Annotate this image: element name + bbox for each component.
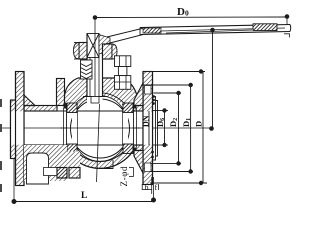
svg-text:Z-φd: Z-φd bbox=[119, 166, 129, 187]
dimension D0 line bbox=[95, 16, 287, 19]
bonnet dome hatched bbox=[65, 78, 88, 105]
right pipe wall bottom hatched band bbox=[126, 145, 143, 151]
left flange raised face bbox=[11, 100, 16, 159]
handle tip bbox=[289, 25, 292, 32]
right flange hub bottom bbox=[134, 151, 143, 174]
handle bar bottom edge bbox=[140, 32, 290, 35]
bottom boss box left bbox=[57, 168, 67, 179]
left flange bore gap bbox=[11, 111, 25, 144]
D0 extension right bbox=[286, 17, 288, 25]
gland top edge bbox=[74, 42, 87, 44]
body cavity top arc bbox=[71, 93, 130, 111]
L dimension line bbox=[14, 201, 154, 203]
body cavity white bbox=[68, 96, 133, 161]
stem inner left bbox=[89, 58, 91, 97]
ball inner arc bottom bbox=[75, 142, 126, 161]
seat ring top left bbox=[67, 103, 77, 113]
H line bbox=[212, 30, 214, 129]
ball inner arc top bbox=[75, 96, 126, 115]
stem outer right bbox=[102, 42, 104, 97]
packing gland right bbox=[103, 44, 113, 59]
right flange face lines bbox=[142, 72, 144, 185]
left pipe wall top hatched band bbox=[24, 106, 57, 112]
bottom left block bbox=[24, 145, 67, 181]
seat edge vertical right bbox=[122, 111, 124, 145]
packing gland left bbox=[79, 43, 87, 60]
D1 dimension line bbox=[190, 85, 192, 172]
svg-text:D0: D0 bbox=[177, 6, 189, 18]
svg-text:f: f bbox=[155, 183, 158, 192]
centerline bbox=[2, 127, 212, 129]
gland bottom edge bbox=[74, 58, 87, 60]
body bottom left fill bbox=[65, 152, 81, 168]
body bottom outer arc bbox=[67, 151, 133, 168]
packing nut wedge bbox=[99, 35, 110, 55]
raised face step 1 bbox=[153, 97, 156, 161]
handle inner line 2 bbox=[166, 30, 252, 33]
body joint line right bbox=[133, 103, 135, 154]
D dimension line bbox=[202, 72, 204, 184]
DN dimension line bbox=[148, 111, 150, 145]
bottom bolt slot white bbox=[44, 168, 58, 176]
handle mid line bbox=[160, 28, 285, 31]
bolt hole bracket bbox=[129, 167, 134, 169]
svg-text:D: D bbox=[194, 121, 204, 127]
svg-text:DN: DN bbox=[142, 115, 151, 127]
right flange plate bbox=[143, 72, 153, 185]
ball bbox=[71, 99, 130, 158]
bore bottom line bbox=[11, 144, 153, 146]
seat ring bottom left bbox=[67, 144, 77, 154]
right flange top bolt hole bbox=[145, 86, 152, 95]
centerline through port bbox=[60, 127, 140, 129]
raised face tick dots bbox=[152, 95, 155, 98]
left flange face lines bbox=[10, 100, 12, 159]
right flange bore gap bbox=[143, 111, 152, 144]
packing lobe right bbox=[112, 44, 117, 59]
left flange hub bottom bbox=[24, 151, 35, 161]
D0 extension left bbox=[94, 18, 96, 97]
spring washer stack left bbox=[81, 60, 93, 79]
gland bolt shank bbox=[118, 67, 127, 76]
svg-text:b: b bbox=[145, 183, 149, 192]
handle boss hatch bbox=[143, 28, 161, 33]
seat ring bottom right bbox=[123, 144, 133, 154]
right flange hub top bbox=[134, 83, 143, 106]
stem outer left bbox=[86, 34, 88, 97]
bottom boss box right bbox=[69, 168, 80, 179]
bottom center stud line bbox=[97, 104, 100, 182]
seat ring top right bbox=[123, 103, 133, 113]
handle grip hatch bbox=[253, 24, 277, 31]
right flange bottom bolt hole bbox=[145, 163, 152, 172]
ball port white bbox=[72, 112, 128, 145]
stem inner right bbox=[98, 58, 100, 97]
body joint line left bbox=[66, 103, 68, 154]
raised face step 2 bbox=[156, 101, 158, 157]
body bottom hatched crescent bbox=[67, 146, 133, 168]
stem column white bbox=[87, 34, 103, 104]
seat edge vertical left bbox=[77, 111, 79, 145]
gland bolt head bbox=[115, 56, 131, 67]
stem bottom foot bbox=[83, 96, 107, 98]
packing lobe left bbox=[74, 43, 80, 60]
stem X box bbox=[87, 34, 99, 58]
handle neck bbox=[104, 35, 143, 45]
f dimension ticks bbox=[158, 184, 160, 190]
seat corner nubs bbox=[64, 103, 68, 109]
gland bolt nut bbox=[115, 76, 131, 90]
L extension left bbox=[13, 159, 15, 202]
bottom left notch white bbox=[27, 153, 49, 184]
svg-text:L: L bbox=[81, 191, 87, 201]
L extension right bbox=[153, 177, 155, 202]
bore top line bbox=[11, 110, 153, 112]
right pipe wall top hatched band bbox=[126, 106, 143, 112]
left flange hub top bbox=[24, 95, 35, 106]
left pipe wall bottom hatched band bbox=[24, 145, 57, 151]
body left boss bottom bbox=[57, 151, 65, 172]
left flange plate bbox=[16, 72, 25, 186]
body bottom ledge bbox=[100, 160, 113, 169]
scan smudge marks bbox=[0, 99, 2, 107]
body cavity bottom arc bbox=[72, 146, 128, 162]
bore lines through port bbox=[67, 110, 133, 112]
D6 dimension line bbox=[164, 111, 166, 146]
D2 dimension line bbox=[178, 93, 180, 163]
body left boss top bbox=[57, 79, 65, 106]
handle bar top edge bbox=[140, 25, 290, 28]
b dimension bbox=[141, 184, 143, 190]
